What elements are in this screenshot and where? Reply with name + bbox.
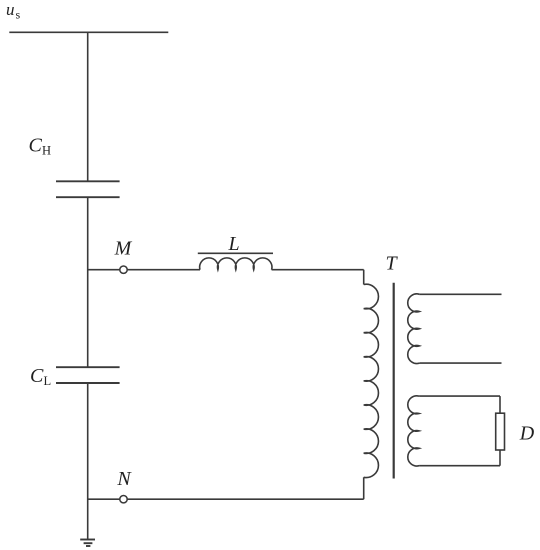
wire secondary upper top bbox=[419, 293, 501, 295]
label D bbox=[519, 423, 535, 445]
wire M stub left bbox=[88, 269, 120, 271]
svg-text:C: C bbox=[29, 134, 43, 156]
node us label bbox=[6, 0, 21, 22]
svg-text:T: T bbox=[385, 253, 398, 275]
capacitor CH bbox=[56, 181, 120, 197]
wire left vertical upper bbox=[87, 32, 89, 181]
wire secondary lower top bbox=[419, 395, 500, 397]
svg-text:N: N bbox=[116, 468, 132, 490]
wire top horizontal bbox=[9, 31, 168, 33]
node M bbox=[120, 266, 127, 273]
wire corner down to primary bbox=[363, 270, 365, 285]
ground bbox=[80, 540, 95, 547]
transformer primary winding bbox=[364, 284, 379, 477]
wire secondary lower right upper bbox=[499, 396, 501, 413]
wire left vertical lower bbox=[87, 383, 89, 540]
wire M to inductor bbox=[127, 269, 200, 271]
transformer core bbox=[393, 283, 395, 479]
inductor L bbox=[200, 258, 272, 270]
wire inductor to corner bbox=[272, 269, 364, 271]
svg-text:s: s bbox=[16, 8, 21, 22]
resistor D bbox=[496, 413, 505, 450]
svg-text:L: L bbox=[227, 233, 239, 255]
transformer secondary lower winding bbox=[408, 396, 419, 466]
svg-text:C: C bbox=[30, 365, 44, 387]
wire left vertical middle bbox=[87, 197, 89, 367]
svg-text:H: H bbox=[42, 144, 51, 158]
wire bottom horizontal bbox=[127, 498, 364, 500]
transformer secondary upper winding bbox=[408, 294, 420, 364]
node N bbox=[120, 496, 127, 503]
wire secondary upper bottom bbox=[419, 362, 501, 364]
wire primary bottom down bbox=[363, 477, 365, 499]
svg-text:D: D bbox=[519, 423, 535, 445]
label L bbox=[227, 233, 239, 255]
wire secondary lower bottom bbox=[419, 465, 500, 467]
inductor L overline bbox=[198, 252, 273, 254]
wire secondary lower right lower bbox=[499, 450, 501, 466]
svg-text:M: M bbox=[114, 238, 133, 260]
capacitor CL bbox=[56, 367, 120, 383]
wire N stub left bbox=[88, 498, 120, 500]
label CL bbox=[30, 365, 51, 388]
label T bbox=[385, 253, 398, 275]
label CH bbox=[29, 134, 52, 157]
label M bbox=[114, 238, 133, 260]
svg-text:u: u bbox=[6, 0, 15, 19]
svg-text:L: L bbox=[44, 374, 52, 388]
label N bbox=[116, 468, 132, 490]
